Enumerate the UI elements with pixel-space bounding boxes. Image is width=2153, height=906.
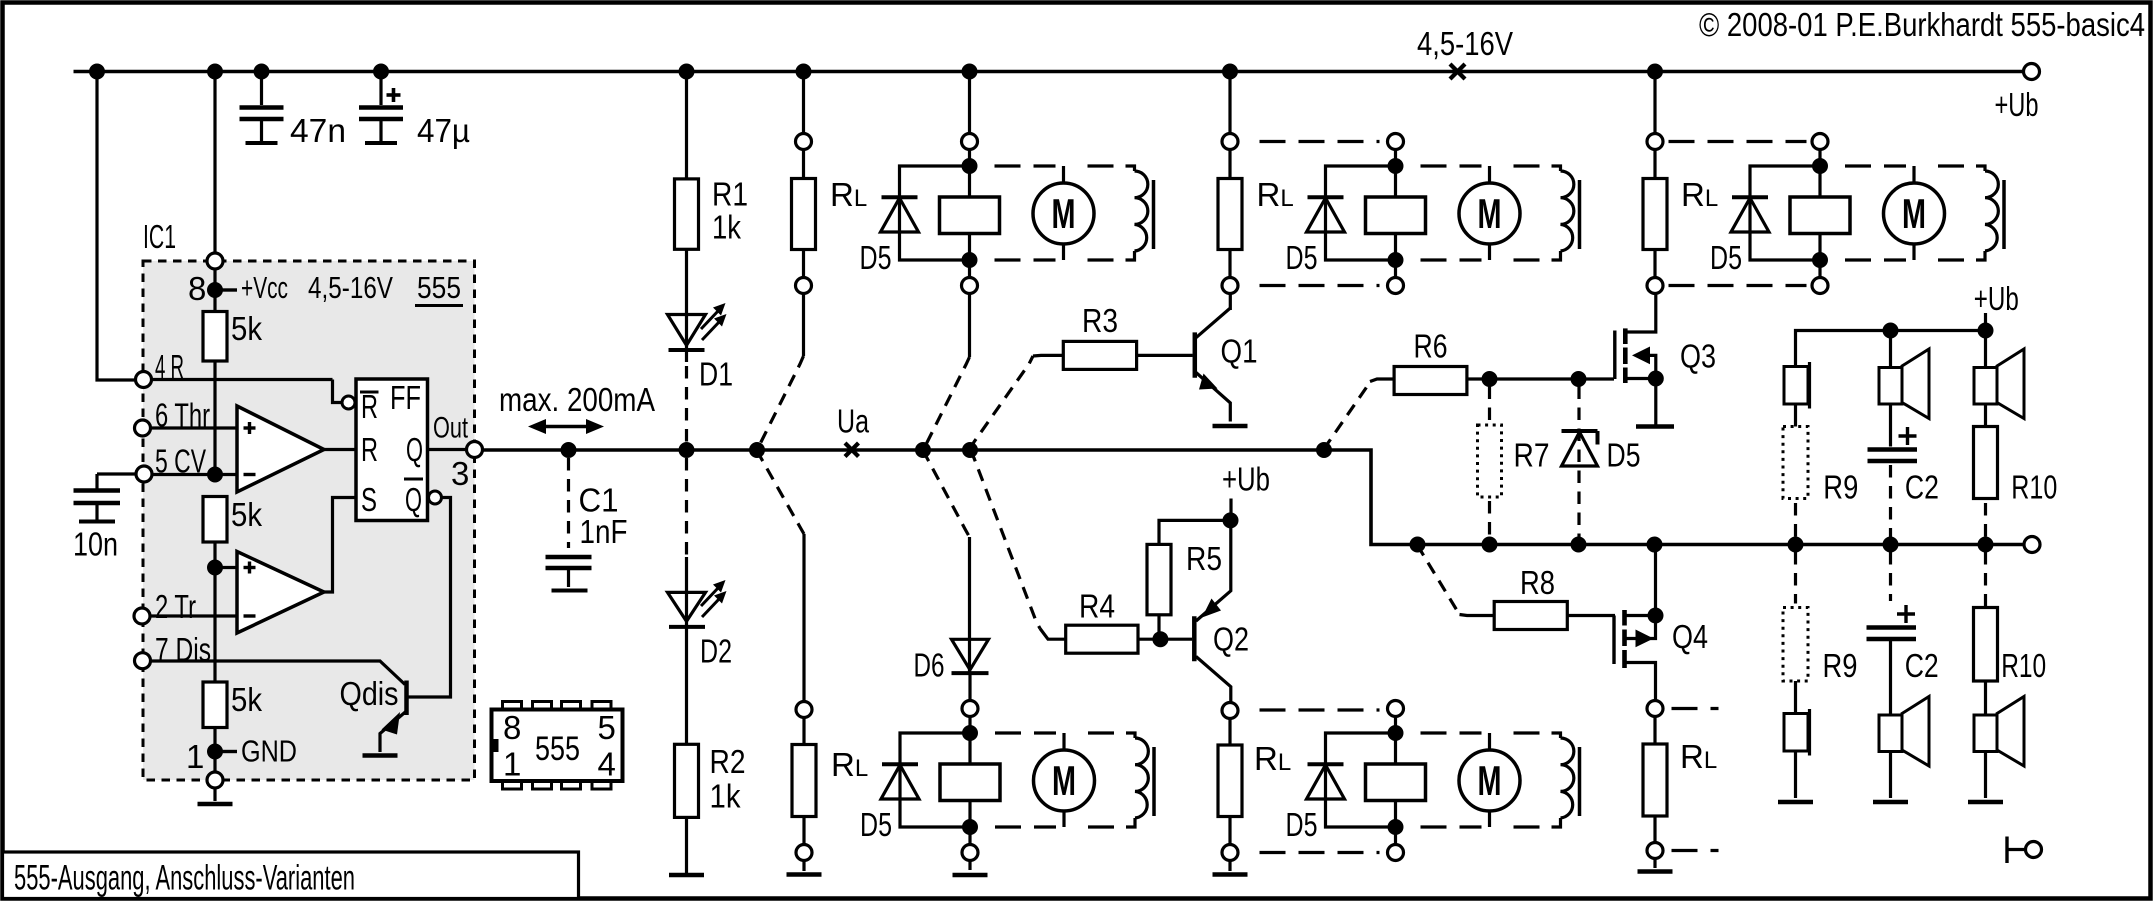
- junction on Ua rail D6diag: [916, 443, 931, 458]
- solenoid coil with core (K4): [1514, 733, 1580, 827]
- ground Q3 source: [1636, 424, 1674, 429]
- svg-text:© 2008-01 P.E.Burkhardt 555-ba: © 2008-01 P.E.Burkhardt 555-basic4: [1699, 6, 2145, 43]
- svg-text:C2: C2: [1905, 469, 1939, 506]
- svg-text:R4: R4: [1079, 588, 1115, 625]
- pin 6 Thr terminal: [135, 397, 238, 437]
- transistor Q4 N-MOSFET: [1614, 545, 1708, 701]
- resistor RL load lower-left: [792, 702, 868, 872]
- capacitor 47u polarized: [359, 72, 470, 150]
- svg-text:M: M: [1052, 757, 1076, 804]
- node CV divider junction: [208, 467, 223, 482]
- svg-text:D1: D1: [699, 356, 733, 393]
- svg-text:5k: 5k: [231, 310, 262, 347]
- copyright note: [1699, 6, 2145, 43]
- capacitor C1 1nF: [546, 458, 628, 591]
- diode D5 freewheel (K4): [1286, 733, 1396, 843]
- svg-text:Q4: Q4: [1672, 618, 1708, 655]
- svg-text:8: 8: [503, 709, 521, 746]
- pin 1 GND terminal: [186, 734, 297, 805]
- svg-text:Qdis: Qdis: [340, 675, 399, 712]
- resistor R5 pullup: [1147, 520, 1231, 646]
- motor M (K1): [995, 166, 1095, 260]
- svg-text:M: M: [1478, 757, 1502, 804]
- svg-text:+Ub: +Ub: [1995, 86, 2039, 123]
- wire relay 1 to Ua rail dashed diagonal: [923, 294, 970, 451]
- label Ua node: [837, 403, 869, 440]
- junction on lower rail spk2: [1883, 537, 1898, 552]
- dashed stub right of Q4 RL top: [1672, 707, 1719, 710]
- speaker top set right: [1974, 331, 2024, 419]
- svg-text:R9: R9: [1823, 647, 1858, 684]
- resistor R9 optional top set: [1783, 404, 1858, 538]
- resistor R8 gate: [1418, 545, 1616, 630]
- svg-text:+Vcc: +Vcc: [241, 270, 288, 305]
- wire rail to pin 8: [213, 72, 216, 254]
- junction on top rail x=1655: [1648, 64, 1663, 79]
- ground R2: [669, 873, 704, 878]
- pin 5 CV terminal: [136, 443, 237, 483]
- resistor RL load below Q2: [1218, 703, 1291, 872]
- svg-text:10n: 10n: [73, 526, 118, 563]
- IC1 555 dashed box: [143, 218, 475, 780]
- dashed link RL2 to relay K2 bottom: [1260, 284, 1380, 287]
- svg-text:FF: FF: [390, 379, 421, 416]
- junction on top rail x=686.5: [679, 64, 694, 79]
- svg-text:1: 1: [186, 738, 204, 775]
- speaker bottom set right: [1974, 697, 2024, 799]
- resistor R6 gate: [1324, 328, 1614, 451]
- relay coil with diode D5 (K1): [940, 134, 1000, 294]
- ground below relay (K3): [953, 861, 988, 876]
- svg-text:Q1: Q1: [1221, 333, 1258, 370]
- terminal ground bottom right: [2007, 837, 2042, 864]
- label max. 200mA with arrow: [499, 381, 655, 434]
- break mark X on Ua rail: [845, 443, 859, 457]
- wire RL1 to Ua rail dashed diagonal: [757, 294, 804, 451]
- svg-text:1nF: 1nF: [580, 513, 628, 550]
- svg-text:4: 4: [598, 746, 616, 783]
- svg-text:R3: R3: [1082, 302, 1118, 339]
- wire Ua to lower RL dashed diagonal: [757, 450, 804, 702]
- svg-text:47n: 47n: [290, 112, 346, 149]
- svg-text:IC1: IC1: [143, 218, 176, 255]
- svg-text:R5: R5: [1186, 540, 1222, 577]
- diode D6 series: [914, 639, 989, 700]
- wire +Ub top rail: [74, 70, 2023, 74]
- junction on Ua rail R34diag: [963, 443, 978, 458]
- junction on Ua rail R6diag: [1317, 443, 1332, 458]
- transistor Q2 PNP: [1160, 520, 1249, 702]
- junction on lower rail spk1: [1788, 537, 1803, 552]
- resistor 5k upper divider: [203, 290, 262, 475]
- FF Qbar output wire: [408, 491, 451, 697]
- diode D5 freewheel (K1): [860, 166, 970, 276]
- svg-text:+Ub: +Ub: [1974, 280, 2019, 317]
- transistor Qdis discharge: [340, 675, 407, 752]
- dashed link RL3 to relay K5 bottom: [1669, 284, 1807, 287]
- junction on top rail x=381: [374, 64, 389, 79]
- wire +Ub speaker feed line: [1796, 323, 1994, 367]
- resistor R1 1k: [675, 72, 749, 363]
- relay coil with diode D5 (K2): [1366, 134, 1426, 294]
- svg-text:Q3: Q3: [1680, 338, 1716, 375]
- junction on lower rail spk3: [1978, 537, 1993, 552]
- svg-text:M: M: [1052, 190, 1076, 237]
- wire rail to pin 4 R: [97, 72, 136, 381]
- capacitor 10n on CV: [73, 474, 136, 563]
- terminal Ua rail right end: [2024, 537, 2040, 553]
- svg-text:S: S: [361, 481, 377, 518]
- svg-text:D5: D5: [1710, 239, 1742, 276]
- DIP-8 555 package icon: [492, 702, 623, 790]
- svg-text:C2: C2: [1905, 647, 1939, 684]
- piezo earphone top set: [1784, 362, 1810, 409]
- svg-text:R2: R2: [710, 743, 746, 780]
- pin 4 R terminal: [136, 348, 333, 388]
- svg-text:1k: 1k: [712, 209, 741, 246]
- solenoid coil with core (K2): [1514, 166, 1580, 260]
- dashed stub right of Q4 RL bottom: [1672, 849, 1719, 852]
- ground lower-left RL: [787, 872, 822, 877]
- dashed link RL3 to relay K5 top: [1669, 140, 1807, 143]
- junction on top rail x=969.5: [962, 64, 977, 79]
- svg-text:5k: 5k: [231, 681, 262, 718]
- dashed link Q2-RL to relay K4 bottom: [1260, 851, 1380, 854]
- junction on Ua rail D1col: [679, 443, 694, 458]
- svg-text:3: 3: [451, 455, 469, 492]
- svg-text:D2: D2: [700, 633, 732, 670]
- label +Ub speaker feed: [1974, 280, 2019, 331]
- pin 2 Tr terminal: [134, 588, 237, 625]
- svg-text:47µ: 47µ: [417, 112, 470, 149]
- junction on lower rail R7: [1482, 537, 1497, 552]
- diode D5 freewheel (K5): [1710, 166, 1820, 276]
- junction on lower rail R8diag: [1410, 537, 1425, 552]
- svg-text:1k: 1k: [710, 778, 741, 815]
- relay coil with diode D5 (K5): [1790, 134, 1850, 294]
- transistor Q1 NPN: [1195, 294, 1258, 422]
- resistor R7 optional dotted: [1478, 387, 1550, 538]
- svg-text:R1: R1: [712, 176, 748, 213]
- label 4,5-16V supply: [1417, 25, 1513, 62]
- junction on Ua rail C1: [561, 443, 576, 458]
- ground piezo bottom: [1778, 800, 1813, 805]
- resistor R10 bottom set: [1974, 552, 2047, 715]
- piezo earphone bottom set: [1784, 709, 1810, 798]
- svg-text:Out: Out: [433, 412, 468, 445]
- ground speaker bottom right: [1968, 800, 2003, 805]
- title box: [3, 852, 579, 899]
- wire D1 to Ua rail dashed: [685, 366, 688, 444]
- junction on top rail x=1230: [1223, 64, 1238, 79]
- capacitor C2 bottom set: [1867, 552, 1939, 715]
- capacitor C2 top set: [1868, 404, 1939, 538]
- wire rail to RL load 1: [802, 72, 805, 134]
- wire Ua to LED D2 dashed: [685, 458, 688, 629]
- svg-text:4,5-16V: 4,5-16V: [308, 270, 393, 305]
- svg-text:R6: R6: [1414, 328, 1448, 365]
- speaker bottom set middle: [1879, 697, 1929, 799]
- resistor RL load 3 (Q3 drain): [1643, 134, 1718, 294]
- motor M (K4): [1421, 733, 1521, 827]
- motor M (K5): [1845, 166, 1945, 260]
- svg-text:5k: 5k: [231, 496, 262, 533]
- svg-text:Q: Q: [405, 481, 422, 518]
- svg-text:+Ub: +Ub: [1222, 461, 1270, 498]
- ground Q1 emitter: [1213, 424, 1248, 429]
- ground RL below Q2: [1213, 872, 1248, 877]
- svg-text:D5: D5: [1607, 437, 1641, 474]
- svg-text:5: 5: [598, 709, 616, 746]
- diode D5 freewheel (K2): [1286, 166, 1396, 276]
- LED D2: [668, 580, 733, 744]
- svg-text:D6: D6: [914, 647, 945, 684]
- svg-text:R: R: [361, 431, 378, 468]
- dashed link Q2-RL to relay K4 top: [1260, 708, 1380, 711]
- resistor RL load 2 (Q1 collector): [1218, 134, 1294, 294]
- svg-text:8: 8: [188, 270, 206, 307]
- relay coil with diode D5 (K3): [940, 701, 1000, 861]
- node Tr threshold junction: [208, 560, 238, 575]
- relay coil with diode D5 (K4): [1366, 701, 1426, 861]
- dashed link RL2 to relay K2 top: [1260, 140, 1380, 143]
- wire Out rail Ua: [483, 450, 2023, 545]
- svg-text:1: 1: [503, 746, 521, 783]
- pin 8 +Vcc terminal: [188, 253, 393, 307]
- resistor R9 optional bottom set: [1783, 552, 1858, 714]
- terminal +Ub top right: [1995, 64, 2040, 124]
- capacitor 47n: [240, 72, 347, 150]
- junction on top rail x=215: [208, 64, 223, 79]
- ground RL below Q4: [1638, 869, 1673, 874]
- FF Q output to pin 3 Out: [428, 412, 483, 493]
- junction on lower rail Q4: [1647, 537, 1662, 552]
- svg-text:Q2: Q2: [1213, 621, 1249, 658]
- svg-text:max. 200mA: max. 200mA: [499, 381, 655, 418]
- svg-text:555: 555: [535, 730, 580, 768]
- wire Ua to diode D6 dashed diagonal: [923, 450, 970, 675]
- op-amp comparator trigger: [237, 498, 356, 634]
- transistor Q3 N-MOSFET: [1615, 294, 1716, 426]
- svg-text:M: M: [1902, 190, 1926, 237]
- resistor R10 top set: [1974, 404, 2058, 538]
- diode D5 gate zener: [1562, 387, 1641, 538]
- svg-text:D5: D5: [860, 806, 892, 843]
- op-amp comparator threshold: [237, 406, 356, 492]
- solenoid coil with core (K5): [1938, 166, 2004, 260]
- junction on lower rail D5z: [1571, 537, 1586, 552]
- svg-text:R7: R7: [1514, 437, 1550, 474]
- junction on top rail x=97: [90, 64, 105, 79]
- diode D5 freewheel (K3): [860, 733, 970, 843]
- wire rail to relay 1: [968, 72, 971, 134]
- junction dots on Q3 gate line: [1482, 372, 1586, 387]
- svg-text:R10: R10: [2001, 647, 2046, 684]
- speaker top set middle: [1879, 331, 1929, 419]
- junction on top rail x=803.5: [796, 64, 811, 79]
- motor M (K2): [1421, 166, 1521, 260]
- svg-text:R10: R10: [2011, 469, 2057, 506]
- svg-text:Q: Q: [406, 431, 423, 468]
- solenoid coil with core (K1): [1088, 166, 1154, 260]
- ground Qdis emitter: [363, 753, 398, 758]
- flip-flop FF block: [333, 379, 428, 521]
- LED D1: [668, 303, 734, 393]
- svg-text:R8: R8: [1520, 564, 1555, 601]
- svg-text:R: R: [361, 388, 378, 425]
- svg-text:M: M: [1478, 190, 1502, 237]
- resistor 5k middle divider: [203, 496, 262, 682]
- resistor RL load below Q4: [1643, 701, 1717, 869]
- wire rail to RL load 2: [1228, 72, 1231, 134]
- pin 7 Dis terminal: [135, 631, 406, 685]
- svg-text:Ua: Ua: [837, 403, 869, 440]
- label 555 underlined: [415, 270, 463, 306]
- resistor R3 base: [970, 302, 1193, 450]
- svg-text:4,5-16V: 4,5-16V: [1417, 25, 1513, 62]
- svg-text:GND: GND: [241, 734, 297, 769]
- svg-text:R9: R9: [1823, 469, 1858, 506]
- resistor R4 base: [970, 450, 1160, 653]
- svg-text:D5: D5: [860, 239, 892, 276]
- resistor R2 1k: [675, 743, 746, 875]
- resistor RL load 1 top: [792, 134, 868, 294]
- solenoid coil with core (K3): [1088, 733, 1154, 827]
- motor M (K3): [995, 733, 1095, 827]
- break mark X on top rail: [1450, 64, 1465, 79]
- svg-text:D5: D5: [1286, 806, 1318, 843]
- ground speaker bottom middle: [1873, 800, 1908, 805]
- svg-text:555: 555: [417, 270, 461, 305]
- svg-text:D5: D5: [1286, 239, 1318, 276]
- resistor 5k lower divider: [203, 681, 262, 772]
- label +Ub for Q2: [1222, 461, 1270, 528]
- wire rail to RL load 3: [1653, 72, 1656, 134]
- junction on top rail x=261.5: [254, 64, 269, 79]
- svg-text:2 Tr: 2 Tr: [155, 588, 196, 625]
- junction on Ua rail RLdiag: [750, 443, 765, 458]
- svg-text:555-Ausgang, Anschluss-Variant: 555-Ausgang, Anschluss-Varianten: [14, 858, 355, 898]
